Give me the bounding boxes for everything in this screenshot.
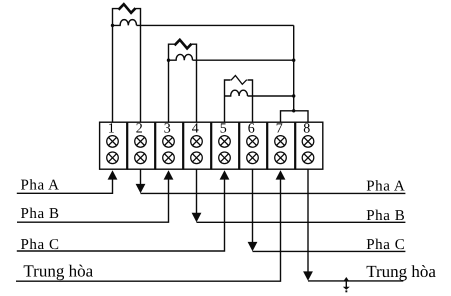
wire: element 1 top-right edge + terminal 2 riser: [136, 9, 141, 123]
screw terminal 1 bottom (circle with X): [107, 152, 119, 164]
node: element 2 joins neutral bus: [292, 59, 295, 62]
current coil of element 3 (thin zigzag): [231, 76, 247, 85]
terminal cell 1: [100, 122, 127, 169]
svg-text:3: 3: [164, 121, 171, 136]
wire: element 2 top-right edge + terminal 4 riser: [192, 44, 197, 122]
terminal cell 2: [128, 122, 155, 169]
voltage coil of element 1 (two humps): [113, 20, 137, 26]
current coil of element 2 (thick zigzag): [175, 40, 192, 49]
node: neutral bus joins terminal 7-8 bracket: [292, 109, 295, 112]
screw terminal 8 bottom (circle with X): [302, 152, 314, 164]
arrow into terminal (source Trung hòa): [276, 170, 286, 179]
arrow out of terminal (load Pha A): [136, 184, 146, 193]
Pha B source rail (left): [17, 179, 169, 222]
screw terminal 1 top (circle with X): [107, 136, 119, 148]
svg-text:Pha A: Pha A: [21, 177, 60, 193]
wire: terminal 3 riser + element 2 top-left edge: [169, 44, 175, 122]
screw terminal 5 top (circle with X): [219, 136, 231, 148]
wire: terminal down to Pha C load rail: [252, 169, 254, 242]
wire: element 3 top-right edge + terminal 6 riser: [248, 80, 253, 122]
Pha A source rail (left): [17, 179, 113, 193]
voltage coil of element 2 (two humps): [169, 54, 193, 60]
arrow out of terminal (load Trung hòa): [303, 271, 313, 280]
Trung hòa load rail (right): [308, 280, 403, 282]
svg-text:4: 4: [192, 121, 199, 136]
neutral bus (right vertical wire): [293, 25, 295, 110]
wire: element 2 voltage coil to neutral bus: [193, 59, 294, 61]
Pha C load rail (right): [253, 250, 406, 252]
wire: terminal down to Trung hòa load rail: [307, 169, 309, 272]
svg-text:7: 7: [276, 121, 283, 136]
arrow into terminal (source Pha A): [108, 170, 118, 179]
terminal cell 8: [296, 122, 323, 169]
wire: bracket linking terminals 7 and 8: [281, 111, 309, 122]
wire: element 3 voltage coil to neutral bus: [248, 95, 294, 97]
terminal cell 5: [212, 122, 239, 169]
screw terminal 5 bottom (circle with X): [219, 152, 231, 164]
terminal cell 7: [268, 122, 295, 169]
arrow into terminal (source Pha B): [164, 170, 174, 179]
node: element 3 joins neutral bus: [292, 94, 295, 97]
current coil of element 1 (thick zigzag): [119, 4, 136, 13]
svg-text:2: 2: [136, 121, 143, 136]
arrow out of terminal (load Pha B): [192, 213, 202, 222]
Trung hòa source rail (left): [16, 179, 281, 281]
wire: element 1 voltage coil to neutral bus: [137, 24, 294, 26]
screw terminal 6 bottom (circle with X): [247, 152, 259, 164]
node: voltage coil 1 tap on terminal 1 riser: [111, 24, 114, 27]
terminal cell 4: [184, 122, 211, 169]
terminal cell 3: [156, 122, 183, 169]
wire: terminal down to Pha B load rail: [196, 169, 198, 213]
voltage coil of element 3 (two humps): [225, 90, 248, 96]
svg-text:5: 5: [220, 121, 227, 136]
svg-text:Pha C: Pha C: [21, 237, 60, 253]
wire: terminal down to Pha A load rail: [140, 169, 142, 184]
screw terminal 4 top (circle with X): [191, 136, 203, 148]
svg-text:Trung hòa: Trung hòa: [23, 262, 93, 281]
wire: terminal 5 riser + element 3 top-left edge: [225, 80, 231, 122]
svg-text:Trung hòa: Trung hòa: [366, 262, 436, 281]
screw terminal 2 top (circle with X): [135, 136, 147, 148]
screw terminal 3 bottom (circle with X): [163, 152, 175, 164]
screw terminal 4 bottom (circle with X): [191, 152, 203, 164]
screw terminal 8 top (circle with X): [302, 136, 314, 148]
screw terminal 2 bottom (circle with X): [135, 152, 147, 164]
screw terminal 7 bottom (circle with X): [275, 152, 287, 164]
svg-text:Pha B: Pha B: [21, 206, 60, 222]
screw terminal 6 top (circle with X): [247, 136, 259, 148]
wire: terminal 1 riser + element 1 top-left edge: [113, 9, 119, 123]
arrow out of terminal (load Pha C): [248, 242, 258, 251]
node: voltage coil 2 tap on terminal 3 riser: [167, 59, 170, 62]
svg-text:Pha C: Pha C: [366, 237, 405, 253]
screw terminal 7 top (circle with X): [275, 136, 287, 148]
Pha B load rail (right): [197, 221, 406, 223]
screw terminal 3 top (circle with X): [163, 136, 175, 148]
svg-text:8: 8: [303, 121, 310, 136]
svg-text:Pha B: Pha B: [366, 208, 405, 224]
terminal cell 6: [240, 122, 267, 169]
svg-text:Pha A: Pha A: [366, 178, 405, 194]
Pha C source rail (left): [17, 179, 225, 251]
svg-text:1: 1: [108, 121, 115, 136]
Pha A load rail (right): [141, 192, 406, 194]
arrow into terminal (source Pha C): [220, 170, 230, 179]
svg-text:6: 6: [248, 121, 255, 136]
ground mark on neutral load rail: [345, 279, 347, 287]
